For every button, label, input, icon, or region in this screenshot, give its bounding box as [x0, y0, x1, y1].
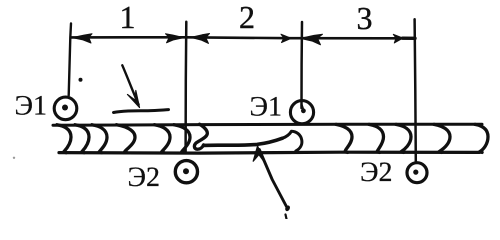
electrode symbol Э1 left: circle	[54, 97, 77, 120]
weld bead scale 8	[369, 124, 384, 152]
weld bead scale 10	[434, 124, 450, 152]
tick at x=70	[69, 24, 71, 96]
stray dot near left arrow	[79, 78, 83, 82]
arrowhead left at x=302	[300, 34, 322, 45]
tick at x=415	[415, 19, 416, 162]
arrowhead right at x=302	[281, 34, 291, 42]
crack indicator arrow (diagonal)	[122, 65, 138, 104]
weld bead scale 2	[75, 125, 89, 153]
arrowhead left at x=70	[72, 34, 92, 43]
stray tick at bottom	[286, 215, 287, 220]
crack indicator arrowhead	[128, 91, 140, 108]
arrowhead left at x=186	[191, 34, 210, 44]
weld bead scale 9	[396, 124, 411, 152]
elongated defect: left hook	[194, 124, 207, 149]
weld bead scale 4	[117, 125, 136, 153]
electrode symbol Э2 left: circle	[175, 161, 197, 183]
svg-text:3: 3	[357, 0, 373, 36]
electrode symbol Э2 right: center dot	[413, 170, 418, 175]
dimension line	[71, 37, 414, 38]
crack line (horizontal wavy stroke)	[114, 110, 169, 113]
weld bead scale 7	[336, 124, 352, 152]
electrode symbol Э1 left: center dot	[62, 105, 68, 111]
electrode symbol Э1 middle: circle	[290, 101, 313, 124]
heavy connector from arrow to tick at x=415	[403, 37, 416, 40]
electrode symbol Э1 middle: center tick	[302, 105, 304, 111]
faint stray dot left	[13, 157, 15, 159]
defect pointer arrowhead	[253, 146, 263, 161]
weld bead scale 6	[174, 125, 190, 153]
weld bead scale 1	[57, 125, 71, 153]
svg-text:2: 2	[239, 0, 255, 35]
electrode symbol Э1 middle: center dot	[301, 108, 306, 113]
weld bead scale 5	[155, 125, 171, 153]
svg-text:Э2: Э2	[360, 157, 392, 188]
arrowhead right at x=186	[166, 34, 184, 43]
defect pointer arrow shaft	[259, 150, 287, 209]
svg-text:1: 1	[120, 0, 136, 35]
tick at x=302	[300, 22, 303, 108]
electrode symbol Э2 left: center dot	[183, 168, 189, 174]
arrowhead right at x=415	[393, 34, 403, 43]
svg-text:Э1: Э1	[15, 91, 47, 122]
weld bead scale 11	[475, 124, 488, 152]
svg-text:Э2: Э2	[128, 162, 160, 193]
elongated defect: long wavy line	[204, 138, 283, 145]
elongated defect: right hook	[283, 131, 302, 151]
svg-text:Э1: Э1	[250, 92, 282, 123]
electrode symbol Э2 right: circle	[407, 163, 427, 183]
weld band top line	[53, 124, 482, 125]
weld bead scale 3	[92, 125, 107, 153]
weld band bottom line	[59, 151, 480, 155]
tick at x=186	[184, 22, 187, 152]
